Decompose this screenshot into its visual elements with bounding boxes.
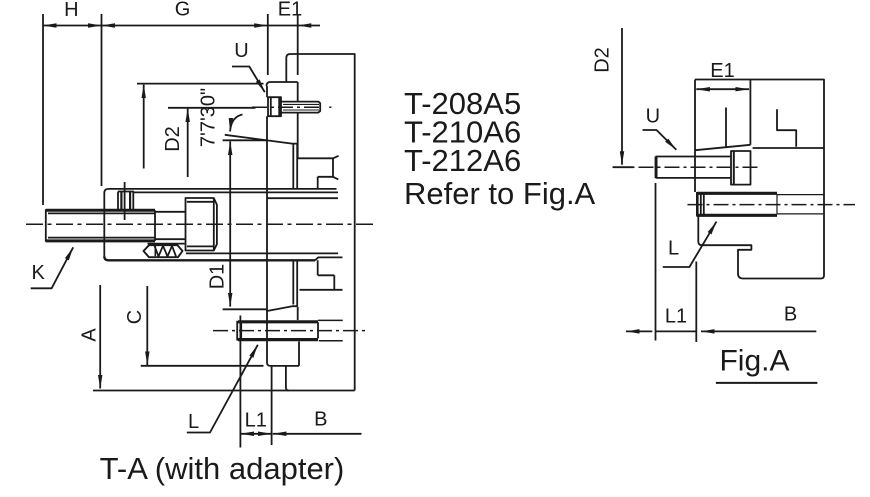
shaft mid section [155,210,185,241]
hub left edge [103,193,105,256]
lower bolt left end [236,321,238,341]
angle reference line [223,139,266,141]
figA inner horizontal [753,147,824,149]
spring zigzag [155,246,177,257]
U screw thread lines [283,104,319,110]
svg-text:L1: L1 [665,306,687,328]
figA U screw head [731,151,751,185]
figA leader U [643,130,677,150]
figA dimension D2 arrow [621,28,623,165]
set screw axis [124,182,126,220]
U screw head [268,97,281,116]
figA lower bolt centerline [688,204,856,206]
wire extension line E1-right [297,14,299,75]
svg-text:B: B [784,304,797,326]
svg-text:Refer to Fig.A: Refer to Fig.A [404,176,596,211]
bolt head block [186,198,214,251]
figA U screw shank [656,157,732,178]
dimension A arrow [99,285,101,389]
spring slot top line [148,243,185,245]
main centerline [26,223,374,225]
lower bolt top edge [238,320,318,323]
svg-text:U: U [646,106,660,128]
figA jaw step [777,109,796,147]
U screw centerline [252,106,322,108]
chuck body face [297,82,299,320]
svg-text:G: G [175,0,191,21]
svg-text:K: K [32,262,46,284]
adapter plate front face [266,86,268,363]
draw bar shaft top edge [46,209,155,212]
jaw slot top [298,156,339,189]
plate rear recess line 1 [292,144,294,305]
figA lower bolt left end [696,192,699,217]
svg-text:T-A (with adapter): T-A (with adapter) [100,451,345,486]
dimension C arrow [146,286,148,365]
D1 lower extension line [223,308,267,310]
svg-text:U: U [234,40,248,62]
spring hexagon outline [144,245,183,257]
lower bolt centerline [213,330,368,332]
figA inner line [725,108,727,148]
figA lower bolt thin shank [777,195,824,214]
figA U screw centerline [613,166,760,168]
dimension E1 line [268,25,298,27]
figA D2 extension line [613,166,634,168]
svg-text:E1: E1 [710,60,734,82]
figA dimension line L1 [656,330,697,332]
dimension G [102,25,268,27]
svg-text:E1: E1 [278,0,302,21]
svg-text:D1: D1 [206,264,228,290]
dimension arrow to plate OD [143,85,145,169]
figA wire L1 left extension [655,183,657,341]
figA title underline [716,382,818,384]
svg-text:B: B [314,409,327,431]
figA lower bolt bottom edge [697,214,777,217]
dimension B [273,433,362,435]
draw bar thread line upper [48,212,155,214]
figA U screw tip cap [655,157,658,178]
taper line top [225,135,298,144]
leader K [31,247,73,288]
svg-text:L: L [188,411,199,433]
svg-text:D2: D2 [162,126,184,152]
svg-text:L: L [668,238,679,260]
wire L1 left extension [239,316,241,448]
bore line chuck upper [267,197,338,199]
bore line lower [186,252,338,254]
figA lower bolt thread verticals [701,193,704,215]
draw bar shaft left end [45,209,47,242]
chuck body outline [286,54,354,391]
boss under bolt [267,342,299,366]
dimension D2 arrow [187,108,189,177]
figA U screw head chamfer line [733,151,735,185]
angle leader arc [230,115,242,132]
step below boss [286,366,289,391]
figA dimension B [701,330,816,332]
lower bolt thin thread extension [318,320,343,340]
plate OD extension line [137,83,264,85]
dimension E1 outside arrow [298,25,320,27]
figA taper line [695,145,750,150]
spring left coil mark [154,246,156,256]
wire extension line G-left [101,14,103,186]
bolt head inner chamfer lines [187,202,214,247]
hub bottom jog segment [315,257,343,260]
svg-text:7'7'30": 7'7'30" [198,88,220,147]
draw bar thread line lower [48,237,155,239]
svg-text:D2: D2 [592,47,614,73]
lower bolt bottom edge [238,338,318,341]
plate rear recess line 2 [296,144,298,307]
set screw on hub [118,192,133,211]
U screw shank [281,102,320,113]
svg-text:Fig.A: Fig.A [719,345,789,378]
adapter plate top [267,82,298,86]
svg-text:H: H [64,0,78,21]
bore line upper [133,191,338,193]
bolt head chamfer profile [214,198,217,251]
svg-text:L1: L1 [245,410,267,432]
wire extension line H-left [42,14,44,205]
lower bolt end face [317,322,319,338]
draw bar shaft bottom edge [46,239,155,242]
figA dimension E1 [696,88,749,90]
dimension H [43,25,102,27]
figA wire L1 right extension [695,262,697,343]
figA adapter/body joint [749,80,751,145]
wire extension line E1-left [267,14,269,75]
svg-text:T-212A6: T-212A6 [404,143,521,178]
leader U [232,67,265,93]
figA adapter left face [694,80,696,193]
svg-text:A: A [79,328,101,342]
figA leader L [663,222,717,267]
figA lower bolt top edge [697,192,777,195]
C extension line [141,365,264,367]
D2 extension line [168,107,256,109]
dimension D1 [229,141,231,306]
chuck body bottom / A extension line [93,390,355,392]
jaw slot bottom [300,260,343,290]
hub bottom line [104,256,315,260]
lower bolt chamfer [240,322,242,340]
leader L [187,345,258,433]
svg-text:C: C [124,310,146,324]
figA L1 outside arrow [626,330,652,332]
taper line bottom [267,306,298,311]
wire L1 right extension [271,366,273,445]
figA body outline [695,80,824,279]
dimension L1 [240,433,271,435]
hub top line [104,189,336,193]
